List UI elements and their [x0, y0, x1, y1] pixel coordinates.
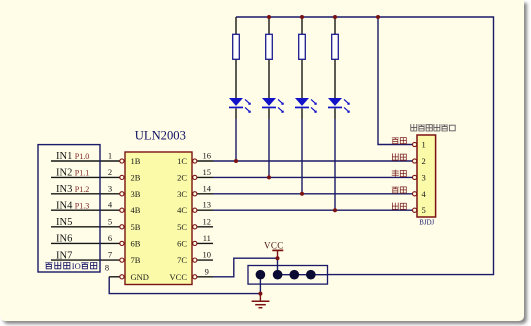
svg-text:7C: 7C [177, 255, 187, 265]
svg-text:3B: 3B [131, 189, 141, 199]
svg-text:P1.1: P1.1 [75, 169, 89, 178]
svg-text:2C: 2C [177, 172, 187, 182]
svg-text:IO: IO [72, 261, 81, 271]
svg-text:5: 5 [422, 205, 426, 215]
svg-text:4: 4 [108, 200, 113, 210]
svg-text:2: 2 [108, 167, 112, 177]
svg-text:7: 7 [108, 250, 112, 260]
svg-text:ULN2003: ULN2003 [135, 128, 186, 142]
svg-text:6: 6 [108, 233, 112, 243]
svg-text:P1.0: P1.0 [75, 152, 89, 161]
svg-text:IN4: IN4 [56, 200, 73, 211]
svg-text:IN2: IN2 [56, 168, 72, 179]
svg-text:6B: 6B [131, 238, 141, 248]
svg-text:10: 10 [203, 250, 212, 260]
svg-text:14: 14 [203, 183, 212, 193]
svg-text:1: 1 [422, 140, 426, 150]
svg-text:15: 15 [203, 167, 212, 177]
svg-text:P1.2: P1.2 [75, 185, 89, 194]
svg-text:12: 12 [203, 216, 212, 226]
svg-text:9: 9 [205, 266, 209, 276]
svg-text:5: 5 [108, 216, 112, 226]
svg-text:IN3: IN3 [56, 184, 72, 195]
svg-text:6C: 6C [177, 238, 187, 248]
svg-text:BJDJ: BJDJ [419, 219, 434, 226]
svg-text:2: 2 [422, 156, 426, 166]
svg-text:IN7: IN7 [56, 250, 72, 261]
svg-text:IN6: IN6 [56, 234, 72, 245]
svg-text:16: 16 [203, 151, 212, 161]
svg-text:VCC: VCC [170, 272, 188, 282]
svg-text:1C: 1C [177, 156, 187, 166]
svg-text:3: 3 [108, 183, 112, 193]
svg-text:1B: 1B [131, 156, 141, 166]
svg-text:3: 3 [422, 172, 426, 182]
svg-text:5B: 5B [131, 222, 141, 232]
svg-text:IN1: IN1 [56, 151, 72, 162]
svg-text:IN5: IN5 [56, 217, 72, 228]
svg-text:2B: 2B [131, 172, 141, 182]
svg-text:GND: GND [131, 272, 149, 282]
svg-text:7B: 7B [131, 255, 141, 265]
svg-text:1: 1 [108, 151, 112, 161]
svg-text:3C: 3C [177, 189, 187, 199]
svg-text:5C: 5C [177, 222, 187, 232]
svg-text:8: 8 [105, 263, 109, 273]
svg-text:11: 11 [203, 233, 211, 243]
svg-text:4B: 4B [131, 205, 141, 215]
svg-text:13: 13 [203, 200, 212, 210]
svg-text:P1.3: P1.3 [75, 201, 89, 210]
svg-text:4C: 4C [177, 205, 187, 215]
svg-text:VCC: VCC [264, 241, 284, 251]
